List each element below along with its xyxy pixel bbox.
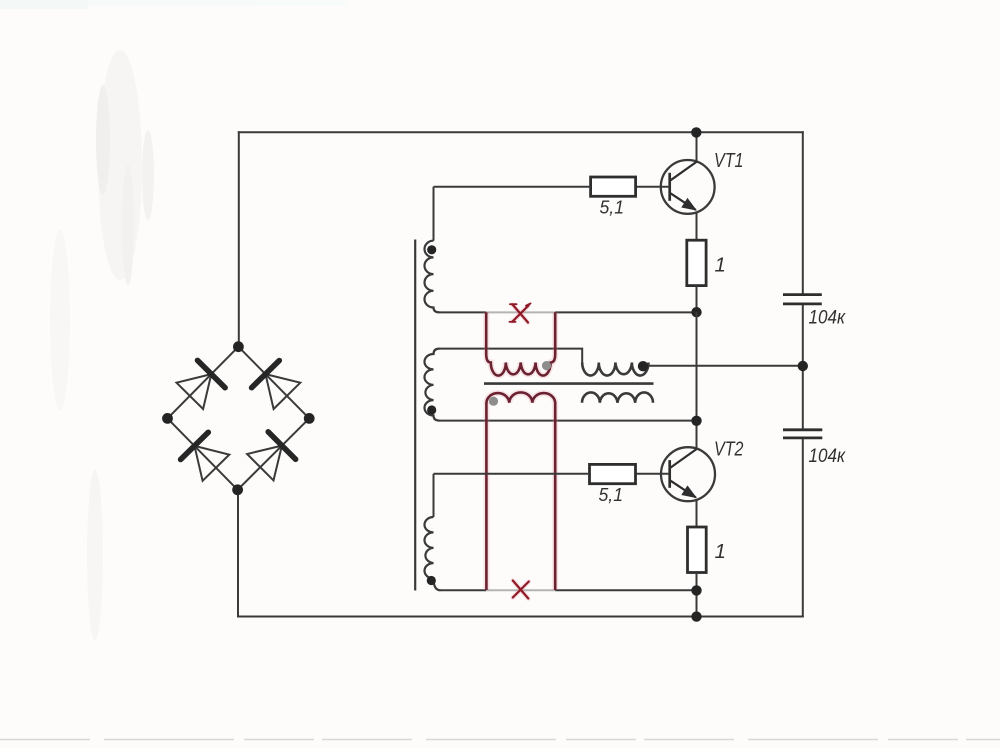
wire winding Ic bottom to VT2 emitter-resistor node (left part): [441, 589, 487, 591]
wire VT2 emitter to resistor 1: [696, 500, 698, 528]
wire resistor 5,1 to winding Ic top: [434, 473, 590, 475]
diode VD1 (upper-left, anode left node, cathode top node): [177, 360, 226, 409]
transistor VT2 collector stroke: [671, 449, 697, 468]
node bridge left (AC input): [162, 413, 173, 424]
wire VT2 base to resistor: [635, 473, 670, 475]
node VT2 leg on bottom rail: [691, 611, 701, 621]
cut mark X (lower): [513, 581, 529, 599]
wire right rail upper segment: [802, 131, 804, 294]
wire top rail: [238, 131, 804, 133]
label VT2: [714, 438, 744, 461]
polarity dot winding Ia (top): [427, 245, 436, 254]
node bridge top (+ DC node): [233, 341, 244, 352]
transformer core (vertical bar): [414, 240, 416, 591]
resistor 1 (VT2 emitter): [688, 527, 707, 573]
scan smudge top-left (decorative): [0, 0, 348, 640]
wire bridge edge bottom-right: [238, 418, 310, 489]
transistor VT1 base bar: [668, 173, 671, 201]
wire resistor 1 to VT1 emitter node: [696, 286, 698, 313]
wire VT1 collector to top rail: [696, 132, 698, 162]
transistor VT1 collector stroke: [671, 162, 697, 181]
svg-text:104к: 104к: [809, 446, 846, 467]
node VT2 emitter-resistor / winding Ic junction: [691, 585, 701, 595]
transistor VT2 body circle: [661, 447, 715, 501]
wire winding II to right rail: [649, 365, 803, 367]
diode VD2 (upper-right, anode right node, cathode top node): [252, 361, 301, 410]
node bridge right (AC input): [304, 413, 315, 424]
label 5,1 (VT1 base resistor): [600, 197, 625, 218]
svg-text:1: 1: [715, 254, 726, 277]
wire left rail lower segment: [237, 490, 239, 618]
polarity dot winding II (right end): [638, 361, 648, 371]
polarity dot added upper winding (gray, right end): [542, 361, 551, 370]
node VT1 emitter junction: [691, 307, 701, 317]
wire left rail upper segment: [238, 131, 240, 347]
svg-text:5,1: 5,1: [599, 484, 624, 505]
wire bridge edge bottom-left: [168, 418, 238, 489]
transformer winding Ib (middle-left vertical coil): [424, 349, 439, 421]
cut mark X (upper): [510, 304, 531, 323]
resistor 5,1 (VT2 base): [590, 464, 636, 483]
transformer core (horizontal bar): [484, 382, 654, 385]
wire cut segment (grayed, upper): [486, 311, 555, 313]
added winding (red) spliced at upper cut: [486, 312, 555, 375]
wire resistor 1 to bottom rail: [696, 573, 698, 618]
label VT1: [714, 149, 744, 172]
transistor VT1 body circle: [661, 160, 715, 214]
svg-text:VT2: VT2: [714, 438, 744, 461]
polarity dot added lower winding (gray, left end): [489, 397, 498, 406]
label 1 (VT1 emitter resistor): [715, 254, 726, 277]
svg-text:104к: 104к: [809, 308, 846, 329]
transformer winding II (upper-right horizontal coil, output): [582, 363, 648, 376]
wire VT1 emitter node to VT2 collector: [696, 312, 698, 448]
node bridge bottom (- DC node): [232, 484, 243, 495]
label 1 (VT2 emitter resistor): [715, 540, 726, 563]
capacitor C2 bottom plate: [783, 436, 822, 439]
wire resistor 5,1 to winding Ia top: [434, 186, 591, 188]
svg-text:1: 1: [715, 540, 726, 563]
label 104к (C1): [809, 308, 846, 329]
label 104к (C2): [809, 446, 846, 467]
wire winding Ic bottom to VT2 emitter-resistor node (right part): [555, 589, 696, 591]
svg-text:VT1: VT1: [714, 149, 744, 172]
transformer winding Ic (bottom-left vertical coil): [424, 474, 440, 591]
wire bottom rail: [237, 616, 804, 618]
node right rail / winding II junction: [798, 361, 808, 371]
label 5,1 (VT2 base resistor): [599, 484, 624, 505]
transistor VT1 emitter stroke with arrow: [671, 193, 696, 210]
resistor 5,1 (VT1 base): [591, 177, 636, 196]
wire bridge edge top-right: [238, 347, 309, 419]
capacitor C1 top plate: [783, 293, 822, 296]
wire right rail lower segment: [802, 438, 804, 618]
diode VD4 (lower-right, anode bottom node, cathode right node): [247, 432, 296, 481]
transformer winding Ia (top-left vertical coil): [424, 187, 439, 313]
node VT1 collector on top rail: [691, 127, 701, 137]
wire VT1 base to resistor: [635, 186, 670, 188]
svg-text:5,1: 5,1: [600, 197, 625, 218]
wire winding Ia bottom to VT1 emitter node (left part): [440, 311, 487, 313]
wire winding Ib top to secondary II step: [440, 349, 583, 363]
wire winding Ib bottom to VT2 collector node: [440, 420, 697, 422]
diode VD3 (lower-left, anode bottom node, cathode left node): [181, 432, 230, 481]
added winding (red) spliced at lower cut: [486, 392, 555, 590]
transistor VT2 emitter stroke with arrow: [671, 481, 696, 498]
capacitor C1 bottom plate: [783, 302, 822, 305]
polarity dot winding Ib (bottom): [427, 405, 436, 414]
transistor VT2 base bar: [668, 460, 671, 488]
wire bridge edge top-left: [168, 347, 239, 419]
wire winding Ia bottom to VT1 emitter node (right part): [555, 311, 696, 313]
wire VT1 emitter to resistor 1: [696, 212, 698, 240]
wire cut segment (grayed, lower): [486, 589, 555, 591]
transformer winding III (lower-right horizontal coil): [582, 392, 653, 402]
resistor 1 (VT1 emitter): [687, 240, 706, 285]
capacitor C2 top plate: [783, 428, 822, 431]
wire right rail middle segment: [802, 304, 804, 430]
node VT2 collector junction: [691, 416, 701, 426]
polarity dot winding Ic (bottom): [427, 576, 436, 585]
scan page-edge line at bottom (decorative): [0, 739, 1000, 741]
